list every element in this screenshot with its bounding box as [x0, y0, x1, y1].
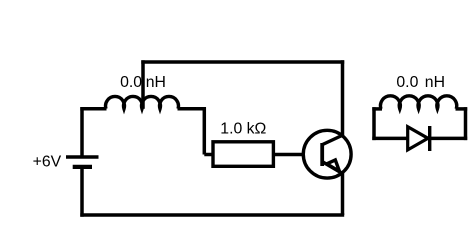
- transistor Q1 circle: [303, 130, 351, 178]
- wire top horizontal: [141, 60, 344, 64]
- resistor R1: [213, 142, 273, 167]
- wire battery bottom vertical: [80, 167, 84, 217]
- wire left horizontal to L1: [80, 107, 106, 111]
- wire vertical feed from top wire to inductor L1: [141, 60, 145, 109]
- diode D1 cathode bar: [428, 126, 431, 151]
- wire right of L1: [178, 107, 207, 111]
- svg-text:0.0: 0.0: [396, 74, 418, 91]
- svg-text:nH: nH: [425, 74, 445, 91]
- svg-text:0.0: 0.0: [120, 74, 142, 91]
- wire loop left vertical: [372, 107, 376, 140]
- inductor L1: [106, 96, 179, 108]
- wire emitter vertical: [341, 173, 345, 216]
- wire bottom horizontal: [80, 213, 344, 217]
- wire into resistor R1: [204, 153, 213, 157]
- wire collector vertical: [341, 60, 345, 136]
- transistor Q1 collector diagonal: [322, 135, 344, 145]
- wire resistor to base: [273, 153, 304, 157]
- battery V1 negative plate: [73, 165, 92, 169]
- inductor L2: [380, 96, 456, 109]
- wire loop right vertical: [464, 107, 468, 140]
- transistor Q1 base bar: [320, 143, 324, 166]
- wire vertical down to resistor level: [203, 107, 207, 154]
- svg-text:+6V: +6V: [33, 154, 62, 171]
- wire loop bottom-left to diode: [372, 137, 407, 141]
- diode D1 triangle: [408, 127, 428, 150]
- wire loop top-right stub: [456, 107, 468, 111]
- svg-text:1.0 kΩ: 1.0 kΩ: [220, 121, 266, 138]
- wire loop top-left stub: [372, 107, 382, 111]
- wire battery top vertical: [80, 107, 84, 157]
- transistor Q1 emitter arrow: [327, 160, 340, 172]
- wire diode to loop bottom-right: [430, 137, 468, 141]
- svg-text:nH: nH: [146, 74, 166, 91]
- transistor Q1 emitter diagonal: [322, 162, 343, 174]
- battery V1 positive plate: [66, 155, 99, 158]
